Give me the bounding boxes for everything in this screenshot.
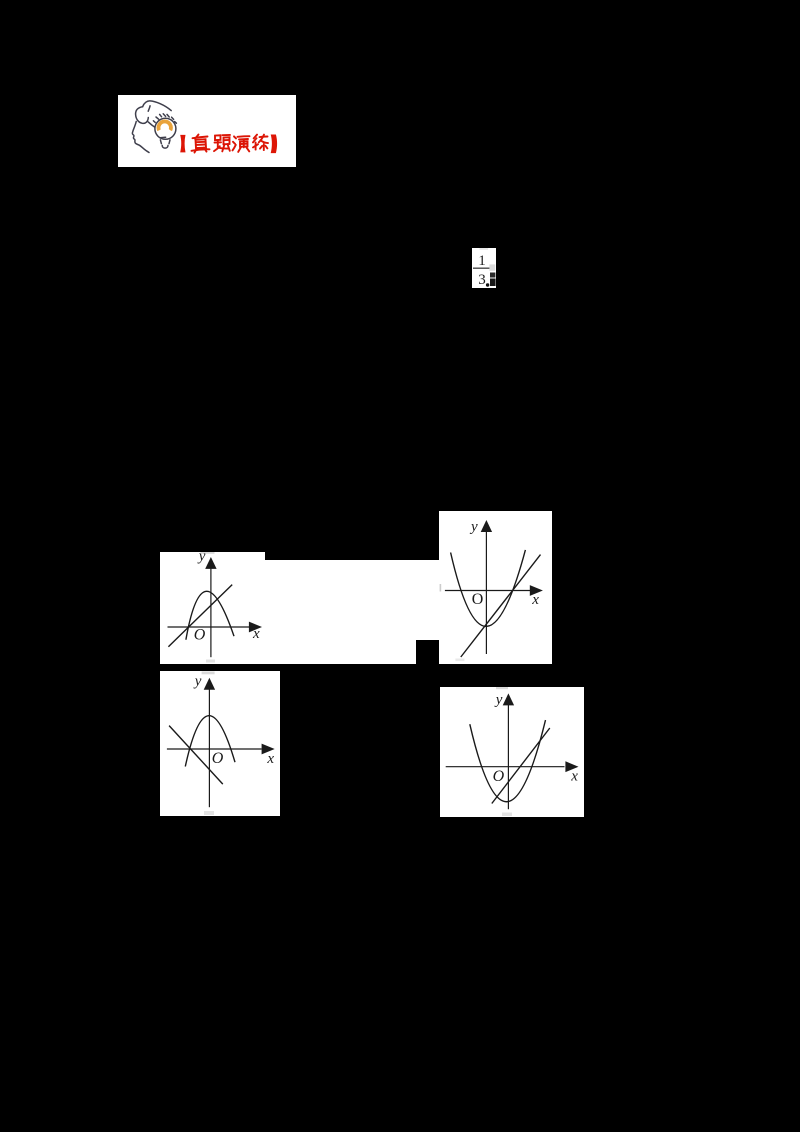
svg-text:1: 1 [478, 253, 486, 269]
svg-text:x: x [252, 626, 260, 642]
svg-text:x: x [531, 592, 539, 608]
svg-text:3: 3 [478, 272, 486, 288]
svg-text:y: y [193, 674, 202, 690]
svg-text:x: x [266, 751, 274, 767]
svg-text:O: O [194, 627, 206, 644]
svg-text:O: O [212, 750, 224, 767]
svg-text:O: O [493, 768, 505, 785]
svg-text:y: y [197, 549, 206, 565]
svg-text:x: x [570, 769, 578, 785]
svg-text:y: y [469, 519, 478, 535]
svg-text:O: O [472, 591, 484, 608]
svg-text:y: y [494, 692, 503, 708]
